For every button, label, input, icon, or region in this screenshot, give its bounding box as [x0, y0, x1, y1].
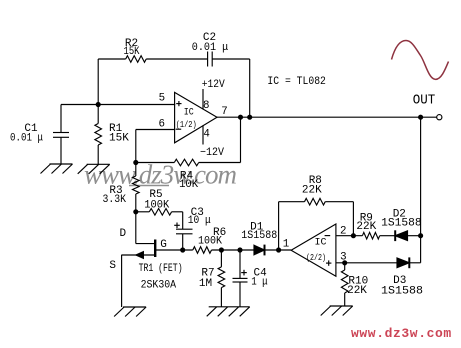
wire [352, 202, 354, 236]
svg-text:2SK30A: 2SK30A [141, 280, 177, 292]
node [277, 248, 281, 252]
diode D3 [381, 257, 423, 297]
svg-text:1: 1 [283, 239, 289, 251]
svg-text:(1/2): (1/2) [176, 119, 197, 130]
wire [135, 130, 137, 163]
wire [336, 235, 363, 237]
ground [207, 307, 250, 317]
wire [336, 262, 397, 264]
svg-text:3.3K: 3.3K [103, 194, 127, 206]
wire [155, 249, 193, 251]
wire [135, 212, 137, 244]
ground [114, 307, 146, 317]
svg-text:1M: 1M [199, 278, 212, 290]
wire [146, 58, 207, 60]
node [248, 115, 252, 119]
svg-text:OUT: OUT [413, 92, 436, 108]
resistor R5 [136, 189, 172, 215]
node [239, 115, 243, 119]
svg-text:IC: IC [184, 107, 194, 118]
svg-text:10K: 10K [179, 179, 198, 191]
wire [212, 58, 250, 60]
node [351, 234, 355, 238]
svg-text:1S1588: 1S1588 [381, 218, 422, 230]
resistor R1 [95, 105, 129, 165]
resistor R4 [174, 159, 198, 191]
watermark url [351, 326, 452, 341]
pin 8 [203, 89, 209, 112]
svg-text:10 μ: 10 μ [188, 215, 211, 227]
terminal OUT [413, 92, 442, 119]
svg-text:100K: 100K [198, 235, 222, 247]
resistor R10 [341, 263, 368, 306]
svg-text:−12V: −12V [200, 147, 224, 159]
svg-text:IC: IC [314, 238, 326, 249]
node [343, 261, 347, 265]
wire [212, 249, 255, 251]
node [419, 115, 423, 119]
pin 5 [159, 93, 165, 105]
capacitor C1 [10, 105, 69, 165]
svg-text:1S1588: 1S1588 [381, 285, 423, 297]
capacitor C2 [192, 32, 229, 67]
resistor R6 [193, 227, 226, 253]
wire [325, 201, 353, 203]
node [238, 248, 242, 252]
pin 1 [283, 239, 289, 251]
pin 4 [203, 125, 210, 144]
svg-text:+12V: +12V [202, 79, 225, 91]
capacitor C4 [233, 250, 269, 307]
wire [98, 58, 126, 60]
svg-text:1S1588: 1S1588 [241, 230, 277, 242]
wire [409, 262, 420, 264]
resistor R3 [103, 163, 140, 212]
svg-text:8: 8 [203, 100, 209, 112]
svg-text:4: 4 [203, 129, 209, 141]
node [134, 210, 138, 214]
wire [408, 235, 421, 237]
svg-text:5: 5 [159, 93, 165, 105]
ground [41, 164, 73, 174]
label IC = TL082 [267, 76, 326, 88]
svg-text:15K: 15K [109, 133, 129, 145]
resistor R9 [356, 213, 379, 239]
svg-text:0.01 μ: 0.01 μ [192, 42, 229, 54]
svg-text:22K: 22K [302, 184, 322, 196]
wire [380, 235, 396, 237]
wire [217, 116, 438, 118]
pin 3 [340, 251, 346, 263]
pin 7 [221, 106, 227, 118]
label 2SK30A [141, 280, 177, 292]
ground [321, 306, 353, 316]
svg-text:6: 6 [159, 118, 165, 130]
svg-text:IC = TL082: IC = TL082 [267, 76, 326, 88]
wire [249, 59, 251, 117]
svg-text:0.01 μ: 0.01 μ [10, 133, 43, 145]
wire [240, 117, 242, 162]
diode D1 [241, 222, 277, 256]
node [134, 161, 138, 165]
wire [265, 249, 292, 251]
wire [420, 117, 422, 263]
ground [78, 164, 110, 174]
sine wave icon [392, 41, 449, 80]
node [181, 248, 185, 252]
+12V [202, 79, 225, 91]
op-amp U2 [291, 224, 336, 276]
svg-text:22K: 22K [347, 285, 367, 297]
label TR1 [139, 263, 183, 275]
transistor TR1 [109, 228, 166, 307]
wire [199, 162, 241, 164]
svg-text:(2/2): (2/2) [306, 252, 326, 263]
watermark [84, 160, 237, 190]
wire [278, 202, 280, 250]
pin 6 [159, 118, 165, 130]
capacitor C3 [174, 207, 211, 250]
svg-text:15K: 15K [124, 46, 140, 58]
wire [279, 201, 305, 203]
node [219, 248, 223, 252]
node [419, 234, 423, 238]
svg-text:G: G [160, 239, 167, 251]
svg-text:www.dz3w.com: www.dz3w.com [351, 326, 452, 341]
wire [97, 59, 99, 105]
wire [136, 162, 175, 164]
diode D2 [381, 209, 422, 242]
resistor R7 [199, 250, 225, 307]
wire [136, 129, 175, 131]
node [96, 103, 100, 107]
wire [61, 104, 175, 106]
wire [172, 212, 183, 229]
svg-text:7: 7 [221, 106, 227, 118]
svg-text:1 μ: 1 μ [251, 277, 268, 289]
svg-text:D: D [119, 228, 126, 240]
-12V [200, 147, 224, 159]
pin 2 [340, 225, 346, 237]
op-amp U1 [175, 92, 217, 142]
resistor R8 [302, 175, 325, 205]
resistor R2 [124, 38, 147, 62]
svg-text:TR1 (FET): TR1 (FET) [139, 263, 183, 275]
svg-text:22K: 22K [356, 221, 376, 233]
svg-text:100K: 100K [144, 200, 169, 212]
svg-text:S: S [109, 260, 116, 272]
